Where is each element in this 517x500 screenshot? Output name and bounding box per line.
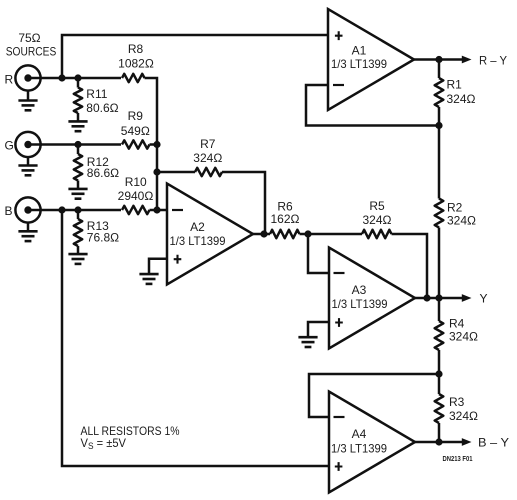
svg-text:R9: R9 bbox=[128, 109, 144, 123]
svg-text:549Ω: 549Ω bbox=[121, 124, 150, 138]
svg-text:324Ω: 324Ω bbox=[447, 214, 476, 228]
junction: R6-R5 / A3 - input node bbox=[304, 230, 311, 237]
svg-text:162Ω: 162Ω bbox=[271, 212, 300, 226]
wire: R6 to node bbox=[300, 233, 309, 236]
resistor R9 549Ω bbox=[122, 140, 149, 148]
op-amp A3 1/3 LT1399 bbox=[329, 248, 415, 349]
svg-text:1082Ω: 1082Ω bbox=[118, 57, 154, 71]
wire: A2 output to R6 bbox=[253, 233, 270, 236]
wire: A1 output to R-Y arrow bbox=[414, 58, 439, 61]
svg-text:B – Y: B – Y bbox=[478, 436, 509, 450]
wire: A3 output to Y arrow bbox=[415, 297, 439, 300]
svg-text:R2: R2 bbox=[447, 200, 463, 214]
op-amp A1 1/3 LT1399 bbox=[328, 9, 414, 110]
wire: A3 + input to ground bbox=[308, 322, 329, 337]
svg-text:R5: R5 bbox=[369, 199, 385, 213]
svg-text:75Ω: 75Ω bbox=[18, 31, 40, 45]
resistor R12 86.6Ω shunt on G bbox=[77, 145, 80, 155]
resistor R7 324Ω feedback of A2 bbox=[157, 171, 195, 174]
wire: A2 + input to ground bbox=[149, 259, 167, 274]
ground: G BNC shell bbox=[27, 157, 30, 166]
svg-text:DN213 F01: DN213 F01 bbox=[443, 454, 473, 463]
svg-text:324Ω: 324Ω bbox=[447, 92, 476, 106]
wire: A4 output to B-Y arrow bbox=[415, 441, 439, 444]
wire: R input row bbox=[28, 77, 121, 80]
label R11 80.6Ω bbox=[77, 113, 80, 121]
svg-text:R: R bbox=[5, 73, 14, 87]
svg-text:R7: R7 bbox=[200, 137, 216, 151]
pin: A4 inverting input bbox=[334, 416, 345, 418]
junction: R9 to bus bbox=[153, 141, 160, 148]
junction: R10 to bus / A2 - input bbox=[153, 206, 160, 213]
pin: A3 inverting input bbox=[334, 272, 345, 274]
wire: output divider rail bbox=[438, 60, 441, 79]
wire: B input row bbox=[28, 209, 121, 212]
svg-text:1/3 LT1399: 1/3 LT1399 bbox=[331, 441, 387, 455]
resistor R8 1082Ω bbox=[122, 74, 145, 82]
svg-text:G: G bbox=[5, 139, 14, 153]
junction: R column to top wire bbox=[58, 74, 65, 81]
svg-text:R3: R3 bbox=[449, 395, 465, 409]
op-amp A4 1/3 LT1399 bbox=[329, 392, 415, 493]
junction: B-Y output node bbox=[435, 438, 442, 445]
ground: A3 + input bbox=[298, 336, 317, 339]
wire: R1 to R2 bbox=[438, 107, 441, 199]
junction: R13 tap bbox=[74, 206, 81, 213]
svg-text:1/3 LT1399: 1/3 LT1399 bbox=[332, 297, 388, 311]
svg-text:A2: A2 bbox=[190, 220, 205, 234]
svg-text:1/3 LT1399: 1/3 LT1399 bbox=[331, 57, 387, 71]
wire: R4 to A4 feedback node bbox=[438, 350, 441, 374]
svg-text:R10: R10 bbox=[125, 175, 147, 189]
svg-text:R1: R1 bbox=[447, 77, 463, 91]
wire: feedback node to R3 bbox=[438, 374, 441, 394]
wire: summing bus G row to B row bbox=[156, 145, 159, 211]
ground: below R12 bbox=[68, 188, 87, 191]
ground: B BNC shell bbox=[27, 222, 30, 231]
label R13 76.8Ω bbox=[77, 246, 80, 254]
BNC connector R input bbox=[15, 65, 40, 90]
ground: R BNC shell bbox=[27, 90, 30, 101]
svg-text:324Ω: 324Ω bbox=[449, 409, 478, 423]
wire: R2 to Y node bbox=[438, 228, 441, 299]
resistor R6 162Ω bbox=[270, 230, 299, 238]
ground: below R11 bbox=[68, 120, 87, 123]
wire: R8 to summing bus bbox=[145, 78, 158, 145]
wire: A3 inverting input to node bbox=[308, 234, 329, 273]
pin: A4 non-inverting input bbox=[335, 462, 343, 471]
resistor R10 2940Ω bbox=[122, 206, 149, 214]
svg-text:R – Y: R – Y bbox=[479, 53, 507, 67]
op-amp A2 1/3 LT1399 bbox=[167, 184, 253, 285]
wire: bus to A2 inverting input bbox=[150, 209, 168, 212]
wire: G input row bbox=[28, 143, 121, 146]
wire: R7 to A2 output bbox=[222, 172, 265, 234]
wire: Y node to R4 bbox=[438, 298, 441, 321]
junction: B column to bottom wire bbox=[58, 206, 65, 213]
svg-text:1/3 LT1399: 1/3 LT1399 bbox=[170, 234, 226, 248]
resistor R4 324Ω bbox=[435, 321, 444, 350]
svg-text:76.8Ω: 76.8Ω bbox=[87, 231, 119, 245]
pin: A3 non-inverting input bbox=[335, 318, 343, 327]
resistor R13 76.8Ω shunt on B bbox=[77, 210, 80, 219]
wire: long wire B input down and across to A4 + input bbox=[62, 210, 329, 466]
junction: A1 output node bbox=[435, 56, 442, 63]
pin: A2 non-inverting input bbox=[174, 255, 182, 264]
resistor R5 324Ω feedback of A3 bbox=[308, 233, 362, 236]
BNC connector B input bbox=[15, 197, 40, 222]
label R12 86.6Ω bbox=[77, 181, 80, 189]
junction: R11 tap bbox=[74, 74, 81, 81]
junction: A2 output / R7 bbox=[260, 230, 267, 237]
svg-text:R4: R4 bbox=[449, 317, 465, 331]
pin: A1 non-inverting input bbox=[335, 31, 343, 40]
svg-text:SOURCES: SOURCES bbox=[6, 44, 57, 58]
svg-text:80.6Ω: 80.6Ω bbox=[86, 101, 118, 115]
BNC connector G input bbox=[15, 132, 40, 157]
resistor R2 324Ω bbox=[435, 199, 444, 228]
pin: A1 inverting input bbox=[333, 84, 344, 86]
svg-text:324Ω: 324Ω bbox=[363, 213, 392, 227]
svg-text:2940Ω: 2940Ω bbox=[118, 189, 154, 203]
wire: A4 feedback loop bbox=[309, 374, 439, 417]
svg-text:86.6Ω: 86.6Ω bbox=[87, 166, 119, 180]
junction: Y output node bbox=[435, 294, 442, 301]
wire: R9 to bus bbox=[150, 143, 158, 146]
svg-text:Y: Y bbox=[480, 291, 488, 305]
svg-text:R11: R11 bbox=[86, 87, 107, 101]
svg-text:R8: R8 bbox=[128, 42, 144, 56]
svg-text:A4: A4 bbox=[352, 427, 367, 441]
svg-text:VS = ±5V: VS = ±5V bbox=[81, 436, 127, 451]
resistor R1 324Ω bbox=[435, 78, 444, 107]
junction: A4 feedback / R4-R3 node bbox=[435, 370, 442, 377]
junction: R5 to Y row bbox=[423, 294, 430, 301]
pin: A2 inverting input bbox=[172, 209, 183, 211]
ground: A2 + input bbox=[139, 273, 158, 276]
wire: R5 right end down to A3 output bbox=[392, 234, 428, 298]
svg-text:B: B bbox=[5, 204, 13, 218]
ground: below R13 bbox=[68, 253, 87, 256]
junction: R12 tap bbox=[74, 141, 81, 148]
resistor R3 324Ω bbox=[435, 394, 444, 423]
resistor R11 80.6Ω shunt on R bbox=[77, 78, 80, 88]
junction: R7 to bus bbox=[153, 168, 160, 175]
svg-text:324Ω: 324Ω bbox=[449, 330, 478, 344]
wire: R3 to B-Y node bbox=[438, 423, 441, 442]
svg-text:A1: A1 bbox=[352, 44, 367, 58]
svg-text:A3: A3 bbox=[352, 283, 367, 297]
junction: A1 feedback / R1-R2 node bbox=[435, 122, 442, 129]
wire: A1 feedback loop bbox=[306, 85, 439, 126]
wire: top wire from R input column to A1 + input bbox=[62, 35, 328, 78]
svg-text:324Ω: 324Ω bbox=[193, 151, 222, 165]
